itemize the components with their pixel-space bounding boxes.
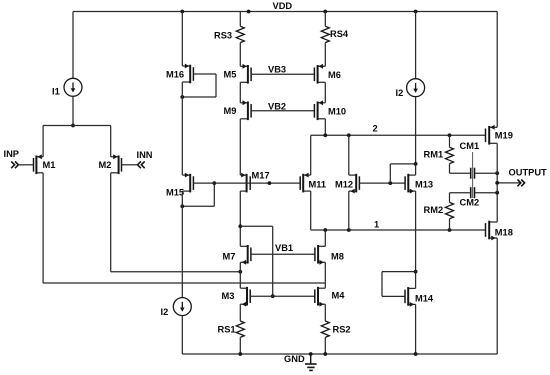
wire M1 drain to M8-M4 node xyxy=(43,173,325,283)
wire RS1 to ground rail xyxy=(239,337,241,354)
transistor M14 xyxy=(405,287,416,307)
wire M15 gate-drain loop xyxy=(180,181,216,208)
wire RS3 to M5 xyxy=(239,43,241,67)
wire VB1 line xyxy=(251,253,315,255)
wire node2 to RM1 xyxy=(449,135,451,147)
transistor M3 xyxy=(240,287,250,307)
wire M14 gate-drain loop xyxy=(382,272,416,297)
svg-text:INN: INN xyxy=(137,150,153,160)
wire INP to M1 gate xyxy=(18,164,33,166)
svg-text:I2: I2 xyxy=(396,88,404,98)
wire RS4 to M6 xyxy=(324,43,326,67)
wire VB3 line xyxy=(251,73,314,75)
wire M3 to RS1 xyxy=(239,304,241,321)
wire M19 to output node xyxy=(496,143,498,222)
wire M2 source lead xyxy=(110,126,112,157)
resistor RS4 xyxy=(321,26,329,42)
wire VDD to RS3 xyxy=(239,12,241,27)
svg-text:VDD: VDD xyxy=(273,1,293,11)
wire RM1 to CM1 xyxy=(450,164,470,174)
transistor M13 xyxy=(405,174,416,194)
wire M2 drain to M7-M3 node xyxy=(111,173,243,274)
wire VDD to RS4 xyxy=(324,12,326,27)
resistor RM1 xyxy=(446,147,454,163)
svg-text:VB2: VB2 xyxy=(268,102,286,112)
wire output node xyxy=(495,181,521,185)
current source I1 xyxy=(64,78,82,96)
wire I2 to ground rail xyxy=(181,316,183,354)
wire M2 gate to INN xyxy=(122,164,138,166)
wire I1 to diff-pair tail xyxy=(71,96,75,127)
transistor M2 xyxy=(111,154,122,174)
svg-text:M16: M16 xyxy=(166,70,184,80)
wire VDD to M16 xyxy=(181,12,183,67)
svg-text:M1: M1 xyxy=(43,160,56,170)
wire M18 to ground rail xyxy=(496,238,498,354)
transistor M9 xyxy=(240,100,251,120)
transistor M18 xyxy=(486,221,498,241)
svg-text:GND: GND xyxy=(284,354,305,364)
svg-text:M3: M3 xyxy=(222,291,235,301)
wire M14 source to ground rail xyxy=(415,304,417,354)
svg-text:I2: I2 xyxy=(161,307,169,317)
capacitor CM2 xyxy=(470,187,475,198)
svg-text:M7: M7 xyxy=(223,252,236,262)
wire M8 to M4 bus xyxy=(324,262,326,288)
svg-text:M11: M11 xyxy=(309,180,327,190)
port OUTPUT chevrons xyxy=(517,180,524,187)
transistor M10 xyxy=(314,100,325,120)
wire CM1 to output bus xyxy=(475,171,499,175)
transistor M15 xyxy=(182,173,193,193)
wire M12 drain lead up xyxy=(348,135,350,175)
transistor M8 xyxy=(315,245,325,265)
transistor M4 xyxy=(315,287,326,307)
wire M1 source lead xyxy=(42,126,44,157)
transistor M11 xyxy=(300,173,311,193)
svg-text:VB3: VB3 xyxy=(268,65,286,75)
wire M11 source lead down xyxy=(310,191,312,230)
wire M17 to M7 bus xyxy=(238,191,242,246)
wire ground rail xyxy=(182,352,497,356)
transistor M5 xyxy=(240,64,251,84)
svg-text:I1: I1 xyxy=(52,87,60,97)
wire VDD to I2 top xyxy=(415,12,417,79)
svg-text:2: 2 xyxy=(373,124,378,134)
svg-text:RS3: RS3 xyxy=(214,31,232,41)
svg-text:M4: M4 xyxy=(332,291,346,301)
ground symbol xyxy=(305,354,317,370)
resistor RM2 xyxy=(446,202,454,218)
port INP chevrons xyxy=(11,161,18,168)
current source I2 lower xyxy=(173,298,191,316)
transistor M6 xyxy=(314,64,325,84)
wire gate line M12-M13 xyxy=(359,181,405,185)
wire M6 to M10 xyxy=(324,82,326,103)
wire M3-M4 gate line xyxy=(250,295,315,297)
wire node1 to M8 drain xyxy=(324,230,326,246)
svg-text:1: 1 xyxy=(374,220,379,230)
wire VB2 line xyxy=(251,110,314,112)
wire M12 source lead down xyxy=(348,191,350,230)
wire M13 source to M14 drain xyxy=(414,191,418,288)
svg-text:M18: M18 xyxy=(495,228,513,238)
svg-text:M12: M12 xyxy=(335,180,353,190)
wire I2 to M13 drain xyxy=(414,97,418,175)
svg-text:M6: M6 xyxy=(328,70,341,80)
svg-text:M15: M15 xyxy=(166,188,184,198)
svg-text:VB1: VB1 xyxy=(275,243,293,253)
resistor RS3 xyxy=(236,26,244,42)
wire gate line M15-M17-M11 xyxy=(193,181,300,185)
wire M10 to node 2 xyxy=(324,119,326,136)
transistor M17 xyxy=(240,173,250,193)
svg-text:OUTPUT: OUTPUT xyxy=(509,168,548,178)
svg-text:RS1: RS1 xyxy=(218,325,236,335)
wire M9 to M17 xyxy=(239,119,241,175)
svg-text:M19: M19 xyxy=(495,131,513,141)
wire branch to M3-M4 gates xyxy=(240,226,274,298)
current source I2 upper xyxy=(407,79,425,97)
svg-text:RS2: RS2 xyxy=(333,325,351,335)
wire capacitor mid link xyxy=(472,152,474,198)
svg-text:M10: M10 xyxy=(328,107,346,117)
transistor M12 xyxy=(349,174,360,194)
transistor M19 xyxy=(486,125,498,145)
wire CM2 to output bus xyxy=(475,191,499,195)
wire RM2 to CM2 xyxy=(450,193,470,203)
wire M5 to M9 xyxy=(239,82,241,103)
wire node 2 xyxy=(311,133,486,137)
wire M16 to M15 xyxy=(181,82,183,175)
wire M4 to RS2 xyxy=(324,304,326,321)
wire tail rail node A xyxy=(43,125,111,127)
wire node 1 xyxy=(311,228,486,232)
svg-text:M9: M9 xyxy=(224,106,237,116)
svg-text:INP: INP xyxy=(4,149,20,159)
capacitor CM1 xyxy=(470,168,475,179)
wire M7 to M3 bus xyxy=(239,262,241,288)
wire RS2 to ground rail xyxy=(324,337,326,354)
svg-text:M17: M17 xyxy=(252,171,270,181)
svg-text:RM2: RM2 xyxy=(424,205,444,215)
svg-text:CM2: CM2 xyxy=(460,198,480,208)
wire node1 to RM2 xyxy=(449,219,451,230)
wire VDD to I1 xyxy=(72,12,74,79)
resistor RS2 xyxy=(321,321,329,337)
svg-text:M8: M8 xyxy=(331,252,344,262)
svg-text:M5: M5 xyxy=(224,70,237,80)
transistor M16 xyxy=(182,64,193,84)
svg-text:M13: M13 xyxy=(415,180,433,190)
resistor RS1 xyxy=(236,321,244,337)
svg-text:RM1: RM1 xyxy=(424,150,444,160)
wire M15 to I2 xyxy=(181,191,183,298)
svg-text:M2: M2 xyxy=(99,160,112,170)
svg-text:M14: M14 xyxy=(415,294,434,304)
wire VDD to M19 xyxy=(496,12,498,128)
wire M11 drain lead up xyxy=(310,135,312,175)
svg-text:RS4: RS4 xyxy=(330,29,349,39)
wire M16 gate-drain loop xyxy=(180,74,216,99)
wire VDD rail xyxy=(73,10,497,14)
svg-text:CM1: CM1 xyxy=(460,141,480,151)
wire M13 gate-drain loop xyxy=(390,164,415,183)
transistor M7 xyxy=(240,245,251,265)
port INN chevrons xyxy=(138,161,145,168)
transistor M1 xyxy=(34,154,44,174)
